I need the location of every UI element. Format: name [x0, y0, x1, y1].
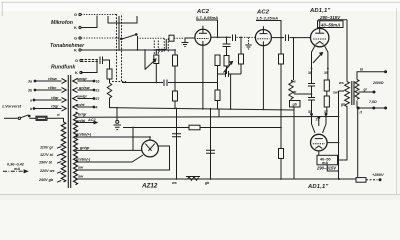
svg-text:16: 16: [96, 80, 100, 84]
svg-text:AC2: AC2: [87, 118, 96, 122]
svg-text:Mikrofon: Mikrofon: [51, 20, 73, 26]
svg-text:240V gb: 240V gb: [38, 178, 54, 182]
svg-text:K: K: [75, 70, 78, 75]
svg-text:ws: ws: [339, 81, 344, 85]
svg-text:+280V: +280V: [372, 172, 384, 177]
svg-text:gn/bn(-): gn/bn(-): [75, 158, 91, 162]
svg-text:gb: gb: [292, 103, 298, 107]
svg-text:a: a: [30, 99, 32, 103]
svg-text:G: G: [74, 12, 77, 17]
svg-text:35: 35: [308, 110, 312, 114]
svg-text:br/gr: br/gr: [78, 112, 87, 116]
svg-text:220V ws: 220V ws: [39, 169, 55, 173]
svg-text:40–59mA: 40–59mA: [320, 23, 340, 28]
svg-text:37: 37: [324, 110, 328, 114]
svg-text:gn/sw: gn/sw: [78, 86, 91, 90]
svg-text:290–315V: 290–315V: [319, 15, 341, 20]
svg-text:gb: gb: [340, 103, 346, 107]
svg-text:K: K: [74, 25, 77, 30]
svg-text:127V bl: 127V bl: [40, 153, 54, 157]
svg-text:G: G: [74, 36, 77, 41]
svg-text:7,5Ω: 7,5Ω: [369, 100, 377, 104]
svg-text:ws: ws: [172, 181, 177, 185]
svg-text:1,5–2,25mA: 1,5–2,25mA: [256, 16, 278, 21]
svg-text:4: 4: [96, 106, 98, 110]
svg-text:22: 22: [96, 89, 100, 93]
svg-text:Tonabnehmer: Tonabnehmer: [50, 43, 85, 49]
svg-text:290–315V: 290–315V: [316, 165, 337, 170]
svg-text:gb: gb: [204, 181, 210, 185]
svg-text:rt/gr: rt/gr: [51, 96, 59, 100]
svg-text:gn/rt: gn/rt: [75, 103, 85, 107]
svg-text:0,7–0,95mA: 0,7–0,95mA: [196, 15, 218, 20]
svg-text:3a: 3a: [28, 80, 32, 84]
svg-text:gn/bn(+): gn/bn(+): [75, 133, 92, 137]
svg-text:rt/bn: rt/bn: [48, 86, 57, 90]
svg-text:gr: gr: [292, 90, 297, 94]
svg-text:Rundfunk: Rundfunk: [51, 65, 76, 71]
svg-text:K: K: [74, 48, 77, 53]
svg-text:rt/gr: rt/gr: [51, 105, 59, 109]
svg-text:150V bl: 150V bl: [39, 161, 53, 165]
svg-text:AD1,1″: AD1,1″: [309, 8, 330, 14]
svg-text:sw/gr: sw/gr: [77, 77, 87, 81]
svg-text:sw/gr: sw/gr: [77, 95, 87, 99]
svg-text:2000Ω: 2000Ω: [372, 81, 384, 85]
svg-text:38: 38: [308, 71, 312, 75]
svg-text:AZ12: AZ12: [141, 183, 158, 190]
svg-text:gn/gr: gn/gr: [79, 146, 90, 150]
svg-text:39: 39: [324, 71, 328, 75]
svg-text:110V gr: 110V gr: [40, 146, 54, 150]
svg-text:gn/bl: gn/bl: [75, 119, 86, 123]
svg-text:rt/sw: rt/sw: [48, 77, 58, 81]
svg-text:z.Vorverst: z.Vorverst: [1, 104, 22, 109]
svg-text:mA: mA: [14, 167, 20, 171]
svg-text:gr: gr: [363, 88, 368, 92]
svg-text:ws: ws: [291, 80, 296, 84]
svg-text:sw: sw: [333, 91, 338, 95]
svg-text:27: 27: [316, 118, 320, 122]
svg-text:G: G: [75, 58, 78, 63]
svg-text:27: 27: [96, 97, 100, 101]
svg-text:AD1,1″: AD1,1″: [307, 184, 328, 190]
